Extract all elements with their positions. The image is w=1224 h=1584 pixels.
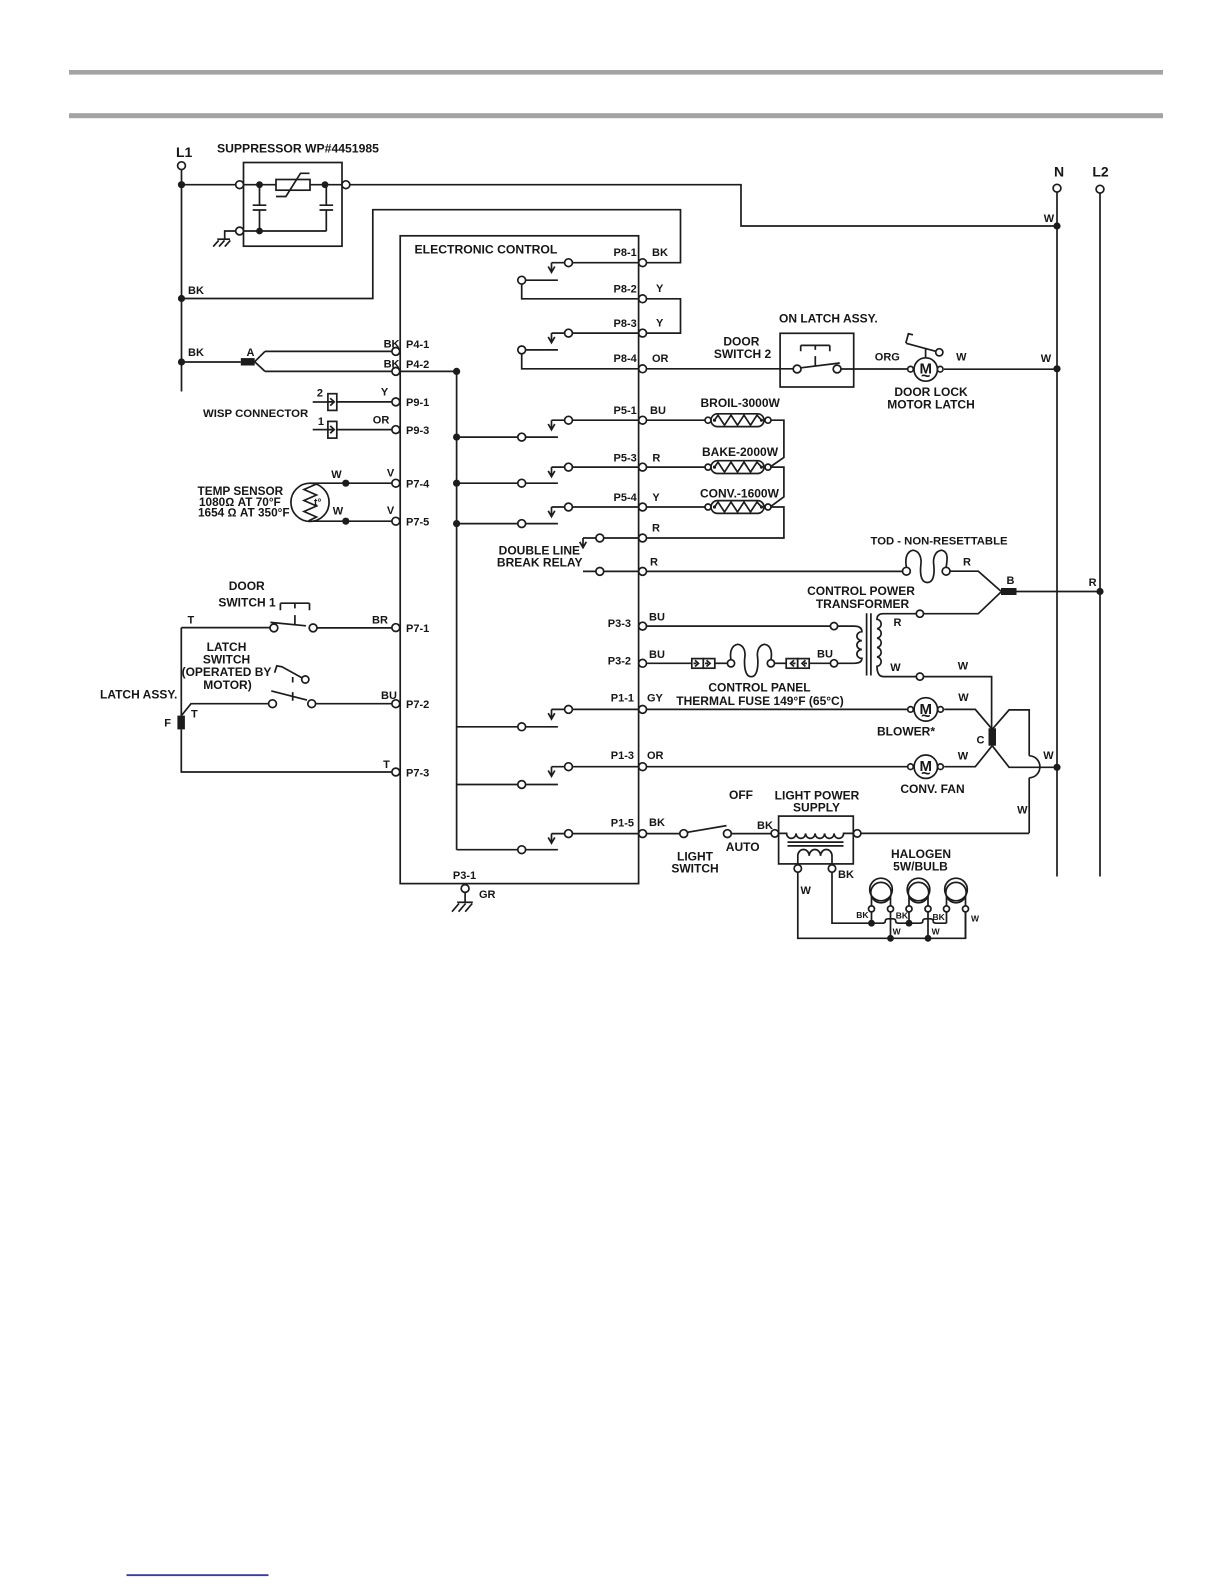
svg-text:B: B [1007,575,1015,587]
wire fan to fuse C [944,746,992,767]
junction bus K4 [453,480,460,487]
svg-text:R: R [652,452,660,464]
terminal P3-1 [453,870,496,901]
terminal R heater return [639,523,660,542]
svg-text:T: T [188,615,195,627]
svg-text:OR: OR [647,750,664,762]
wire fuse B to L2 [1017,591,1101,593]
wire P5-1 to broil [647,419,706,421]
svg-text:BK: BK [384,339,400,351]
terminal P7-2 [381,690,429,711]
svg-text:W: W [333,505,344,517]
svg-text:MOTOR): MOTOR) [203,678,251,692]
svg-text:OFF: OFF [729,788,753,802]
wire W bus [798,872,966,938]
wire door lock motor to N [944,368,1057,370]
svg-text:GR: GR [479,889,496,901]
terminal P9-1 [381,387,429,409]
wire P5-3 to bake [647,466,706,468]
relay contact K2 fixed [518,346,639,369]
fuse C [977,728,996,746]
relay contact K5 fixed [457,520,558,528]
terminal P8-1 [614,247,668,267]
relay contact K2 moving (P8-3) [548,329,639,343]
svg-text:W: W [1041,353,1052,365]
svg-text:W: W [971,914,980,924]
wire internal bus [456,371,458,849]
double line break relay label [497,543,583,569]
wire to P9-1 [337,401,392,403]
terminal P7-5 [387,505,429,529]
svg-text:W: W [958,661,969,673]
svg-text:W: W [1043,750,1054,762]
junction suppressor top right [322,181,329,188]
svg-text:BU: BU [381,690,397,702]
svg-text:Y: Y [656,283,664,295]
wire transformer R to fuse B [924,592,1002,614]
control power transformer [807,584,923,680]
svg-text:N: N [1054,164,1064,180]
relay DLBR contact 1 [580,534,639,548]
relay contact K4 moving (P5-3) [548,463,639,477]
svg-text:BK: BK [188,347,204,359]
svg-text:P7-2: P7-2 [406,699,429,711]
svg-text:(OPERATED BY: (OPERATED BY [182,665,272,679]
wire P4-2 to internal bus [400,370,457,372]
svg-text:P1-3: P1-3 [611,750,634,762]
svg-text:W: W [958,692,969,704]
junction W P7-5 [342,518,349,525]
wire P1-5 to light switch [647,833,680,835]
terminal P3-2 [608,649,665,667]
svg-text:P7-3: P7-3 [406,768,429,780]
wire bake to conv [771,467,784,506]
svg-text:P8-1: P8-1 [614,247,637,259]
halogen bulb 3 [944,878,969,938]
svg-text:BK: BK [652,247,668,259]
ground GR [452,892,473,911]
svg-text:W: W [331,469,342,481]
junction N lower [1053,764,1060,771]
relay contact K1 moving (P8-1) [548,259,639,273]
suppressor WP#4451985 [217,142,379,247]
wire door switch 2 to door lock motor [841,368,907,370]
svg-text:2: 2 [317,388,323,400]
fuse B [1001,575,1017,595]
node L2 [1092,164,1109,194]
junction BK lower [178,358,185,365]
svg-text:BU: BU [649,649,665,661]
wire A to P4-1 [265,350,392,352]
junction L2 [1096,588,1103,595]
wire to thermal fuse [715,662,727,664]
latch switch motor lever [275,666,309,701]
TOD non-resettable [871,535,1008,582]
svg-text:W: W [932,927,941,937]
svg-text:CONTROL PANEL: CONTROL PANEL [708,681,810,695]
control panel thermal fuse [676,644,843,708]
wire P8-4 to door switch 2 [647,368,794,370]
header rule top [69,70,1163,75]
svg-text:R: R [894,617,902,629]
svg-text:~: ~ [921,765,930,782]
wire to suppressor ground [225,231,236,239]
junction bulb1 BK [868,920,875,927]
svg-text:SWITCH 1: SWITCH 1 [218,595,276,609]
svg-text:P7-4: P7-4 [406,479,430,491]
terminal P8-3 [614,318,664,338]
wire L1 rail [181,170,183,392]
door switch 2 label [714,335,772,361]
svg-text:W: W [958,751,969,763]
svg-text:L1: L1 [176,144,193,160]
relay contact K1 fixed [518,276,639,298]
svg-text:C: C [977,735,985,747]
svg-text:ELECTRONIC CONTROL: ELECTRONIC CONTROL [415,243,558,257]
wire T rail vertical [180,628,182,716]
footer link line [127,1574,269,1576]
svg-text:V: V [387,505,395,517]
wire fuse C to N [992,746,1057,768]
junction suppressor bottom [256,228,263,235]
svg-text:R: R [650,556,658,568]
svg-text:BU: BU [817,648,833,660]
terminal P5-3 [614,452,661,471]
light switch [671,788,759,876]
junction L1 top [178,181,185,188]
wire latch switch to P7-2 [316,703,392,705]
relay DLBR contact 2 [583,568,639,576]
svg-text:P5-3: P5-3 [614,452,637,464]
relay contact K3 moving (P5-1) [548,416,639,430]
svg-text:BLOWER*: BLOWER* [877,724,935,738]
svg-text:P9-1: P9-1 [406,397,429,409]
header rule bottom [69,113,1163,118]
svg-text:L2: L2 [1092,164,1109,180]
ground suppressor [213,239,230,246]
connector WISP pin 2 [313,388,337,411]
connector A [241,347,265,371]
svg-text:CONV.-1600W: CONV.-1600W [700,487,780,501]
door switch 2 [793,345,841,373]
svg-text:P8-3: P8-3 [614,318,637,330]
svg-text:BU: BU [650,405,666,417]
svg-text:F: F [164,718,171,730]
svg-text:DOOR: DOOR [229,579,265,593]
wire temp sensor to P7-4 [310,482,392,484]
svg-text:BK: BK [933,912,946,922]
heater BROIL-3000W [701,396,781,427]
wire suppressor internal top [244,184,343,186]
wire conv heater return [647,507,784,538]
svg-text:MOTOR LATCH: MOTOR LATCH [887,398,975,412]
svg-text:P7-5: P7-5 [406,516,429,528]
wire door switch 1 to P7-1 [317,627,392,629]
svg-text:BK: BK [649,817,665,829]
svg-text:T: T [383,759,390,771]
svg-text:P3-1: P3-1 [453,870,476,882]
svg-text:BU: BU [649,612,665,624]
svg-text:BK: BK [384,359,400,371]
wire P1-1 to blower [647,708,908,710]
relay contact K5 moving (P5-4) [548,503,639,516]
svg-text:1654 Ω AT 350°F: 1654 Ω AT 350°F [198,506,290,520]
relay contact K8 fixed [457,846,558,854]
wire light switch to supply [731,833,771,835]
wire temp sensor to P7-5 [310,520,392,522]
wire N rail [1056,192,1058,876]
connector pair right-arrows [692,659,715,669]
wire transformer W to fuse C [924,677,992,729]
terminal R to TOD [639,556,658,575]
connector pair left-arrows [775,659,810,669]
relay contact K6 fixed [457,723,558,731]
svg-text:R: R [1089,577,1097,589]
halogen bulb 1 [869,878,894,938]
svg-text:BAKE-2000W: BAKE-2000W [702,445,779,459]
junction bus top [453,368,460,375]
svg-text:SWITCH: SWITCH [671,862,718,876]
svg-text:OR: OR [373,414,390,426]
svg-text:W: W [956,352,967,364]
wire P1-3 to conv fan [647,766,908,768]
wire below fuse F to P7-3 [181,729,392,772]
svg-text:OR: OR [652,353,669,365]
wire jumper P8-2 to P8-3 [647,299,681,333]
svg-text:W: W [1017,804,1028,816]
svg-text:THERMAL FUSE 149°F (65°C): THERMAL FUSE 149°F (65°C) [676,694,843,708]
svg-text:TRANSFORMER: TRANSFORMER [816,597,910,611]
junction W P7-4 [342,480,349,487]
heater BAKE-2000W [702,445,779,474]
wire to P9-3 [337,429,392,431]
wire light branch down to supply [1028,778,1030,833]
svg-text:W: W [890,662,901,674]
terminal P4-1 [384,339,430,356]
wire R to TOD [647,570,903,572]
svg-text:ORG: ORG [875,351,900,363]
junction bulb2 BK [906,920,913,927]
junction BK upper [178,295,185,302]
svg-text:BK: BK [856,910,869,920]
relay contact K4 fixed [457,479,558,487]
capacitor C1 [253,185,267,231]
junction suppressor top left [256,181,263,188]
svg-text:~: ~ [921,368,930,385]
wire broil to bake [771,420,784,466]
svg-text:SWITCH 2: SWITCH 2 [714,347,772,361]
svg-text:P8-2: P8-2 [614,283,637,295]
svg-text:1: 1 [318,416,324,428]
svg-text:BR: BR [372,615,388,627]
wire BK bus [832,872,947,923]
wire light branch from fuse C [992,710,1029,756]
svg-text:t°: t° [314,498,321,509]
svg-text:P8-4: P8-4 [614,353,638,365]
junction bus K3 [453,434,460,441]
terminal P8-4 [614,353,669,373]
svg-text:ON LATCH ASSY.: ON LATCH ASSY. [779,311,878,325]
electronic control box [400,236,638,884]
svg-text:R: R [652,523,660,535]
junction bulb1 W [887,935,894,942]
terminal P1-3 [611,750,664,771]
svg-text:TOD - NON-RESETTABLE: TOD - NON-RESETTABLE [871,535,1008,547]
svg-text:Y: Y [381,387,389,399]
svg-text:~: ~ [921,708,930,725]
svg-text:BREAK RELAY: BREAK RELAY [497,556,583,570]
terminal P7-4 [387,468,430,491]
wire suppressor to N [350,185,1057,226]
wire suppressor internal bottom [244,230,327,232]
svg-text:R: R [963,556,971,568]
capacitor C2 [320,185,334,231]
door lock motor latch [887,334,975,412]
varistor RV1 [276,173,310,196]
wire blower to fuse C [944,709,992,729]
wire P3-3 to transformer [647,625,831,627]
wire A to P4-2 [265,370,392,372]
terminal P4-2 [384,359,430,376]
junction bus K5 [453,520,460,527]
svg-text:T: T [191,709,198,721]
wire L1 to suppressor [182,184,236,186]
light power supply [771,789,861,873]
svg-text:P4-2: P4-2 [406,359,429,371]
junction bulb2 W [925,935,932,942]
wire to BU circle [809,662,830,664]
blower motor [877,698,943,739]
relay contact K7 moving (P1-3) [548,763,639,777]
junction N top [1053,222,1060,229]
wire P3-2 to connector [647,662,692,664]
svg-text:W: W [893,927,902,937]
heater CONV-1600W [700,487,780,514]
svg-text:A: A [247,347,255,359]
svg-text:5W/BULB: 5W/BULB [893,859,948,873]
relay contact K3 fixed [457,433,558,441]
terminal P5-1 [614,405,666,424]
wire L2 rail [1099,193,1101,876]
svg-text:P1-5: P1-5 [611,817,634,829]
latch switch label [182,640,272,692]
relay contact K7 fixed [457,781,558,789]
svg-text:LATCH ASSY.: LATCH ASSY. [100,688,177,702]
relay contact K6 moving (P1-1) [548,706,639,720]
svg-text:P5-1: P5-1 [614,405,637,417]
junction N door lock [1053,365,1060,372]
wire latch branch [182,704,269,716]
svg-text:Y: Y [656,318,664,330]
halogen bulb 2 [906,878,931,938]
terminal P1-5 [611,817,665,837]
wire T rail to door switch 1 [181,627,270,629]
conv fan motor [900,755,964,796]
halogen label [891,847,951,873]
svg-text:GY: GY [647,692,664,704]
svg-text:Y: Y [652,492,660,504]
svg-text:P3-3: P3-3 [608,618,631,630]
svg-text:P5-4: P5-4 [614,492,638,504]
svg-text:BK: BK [757,820,773,832]
svg-text:BROIL-3000W: BROIL-3000W [701,396,781,410]
wire P5-4 to conv [647,506,706,508]
svg-text:SUPPLY: SUPPLY [793,801,840,815]
on latch assy box [779,311,878,387]
svg-text:P9-3: P9-3 [406,425,429,437]
wire TOD to fuse B [950,571,1001,591]
svg-text:W: W [801,885,812,897]
svg-text:SUPPRESSOR WP#4451985: SUPPRESSOR WP#4451985 [217,142,379,156]
terminal P7-3 [383,759,429,780]
svg-text:BK: BK [896,911,909,921]
svg-text:CONV. FAN: CONV. FAN [900,782,964,796]
node L1 [176,144,193,170]
terminal P8-2 [614,283,664,303]
terminal P9-3 [373,414,429,437]
wire L1 BK to P8-1 [182,210,681,299]
terminal P7-1 [372,615,429,636]
wire supply output to light branch [861,832,1029,834]
temp sensor RT1 [198,483,330,521]
terminal P5-4 [614,492,661,511]
svg-text:P3-2: P3-2 [608,655,631,667]
terminal P1-1 [611,692,664,713]
svg-text:WISP CONNECTOR: WISP CONNECTOR [203,408,308,420]
door switch 1 [270,603,317,632]
door switch 1 label [218,579,276,609]
svg-text:W: W [1044,213,1055,225]
svg-text:AUTO: AUTO [726,840,760,854]
svg-text:P1-1: P1-1 [611,693,634,705]
svg-text:P7-1: P7-1 [406,623,429,635]
wire hop over N feed [1029,756,1040,778]
wire L1 to connector A [182,361,241,363]
svg-text:V: V [387,468,395,480]
svg-text:BK: BK [188,285,204,297]
svg-text:BK: BK [838,869,854,881]
latch switch [269,691,316,708]
node N [1053,164,1064,193]
relay contact K8 moving (P1-5) [548,830,639,844]
terminal P3-3 [608,612,665,631]
svg-text:P4-1: P4-1 [406,339,429,351]
fuse F [164,716,185,730]
connector WISP pin 1 [313,416,337,438]
